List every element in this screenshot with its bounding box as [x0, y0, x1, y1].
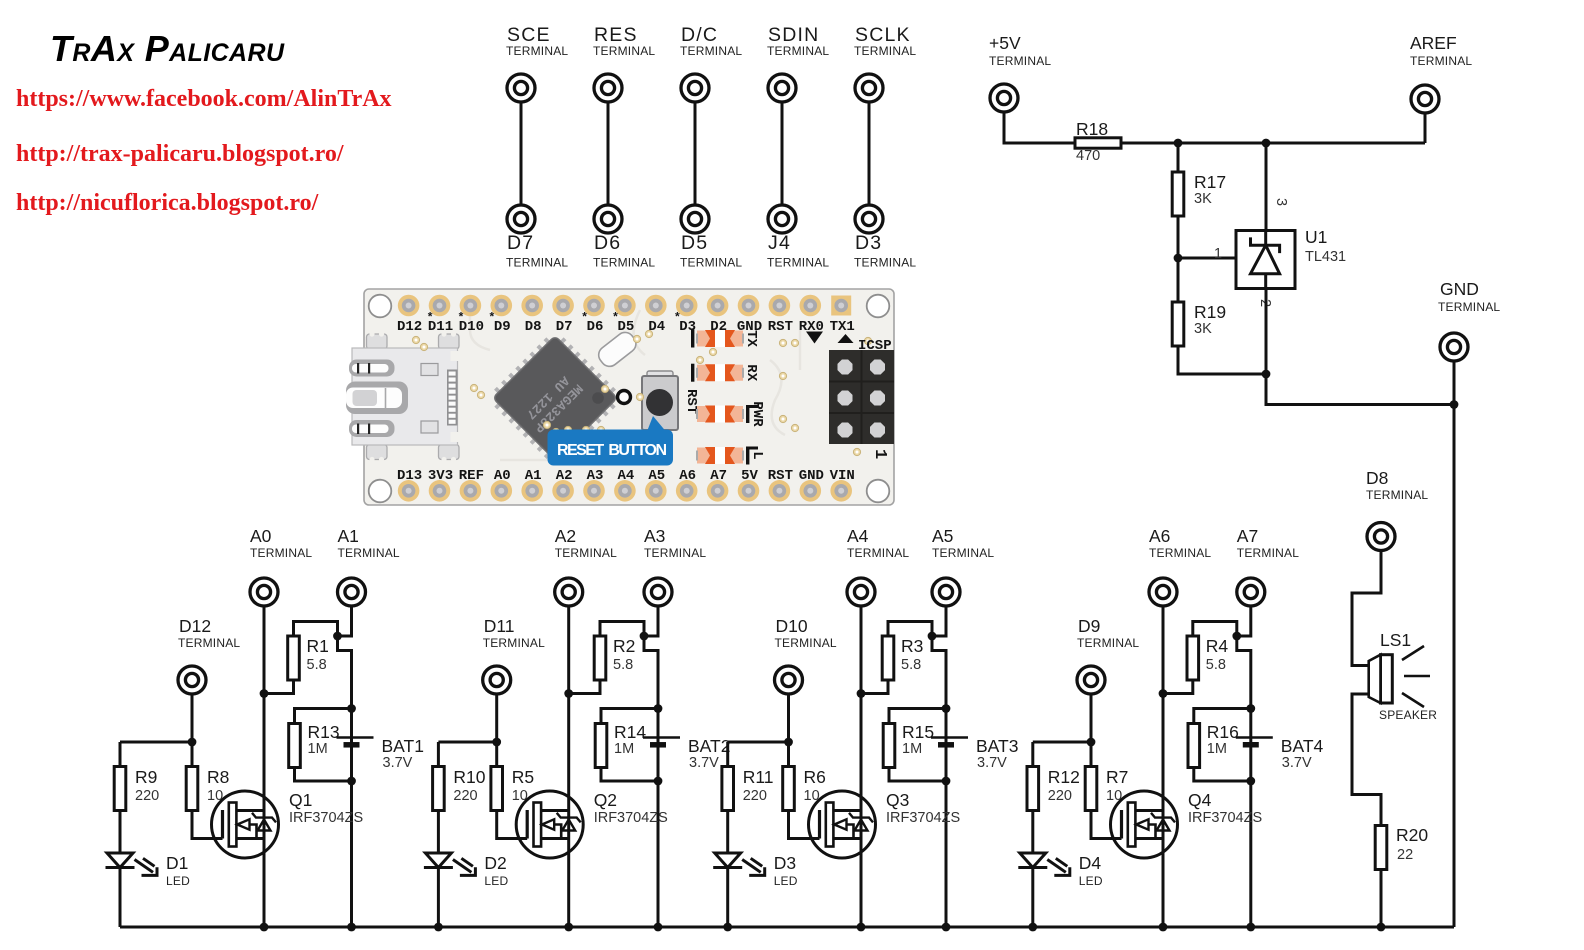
transistor Q4 IRF3704ZS: [1111, 791, 1178, 858]
svg-text:TERMINAL: TERMINAL: [178, 636, 240, 650]
wire A3 to node: [644, 606, 658, 636]
svg-text:RST: RST: [768, 468, 793, 484]
wire R12 top lead: [1031, 742, 1034, 767]
svg-text:*: *: [427, 311, 434, 325]
svg-text:A3: A3: [644, 526, 665, 546]
terminal A6: [1149, 578, 1177, 606]
terminal SCLK: [855, 74, 883, 102]
svg-text:LED: LED: [774, 874, 798, 888]
svg-text:LED: LED: [166, 874, 190, 888]
svg-text:D11: D11: [484, 616, 515, 636]
svg-text:TERMINAL: TERMINAL: [1077, 636, 1139, 650]
svg-text:R10: R10: [453, 767, 485, 787]
wire +5V to R18: [1004, 112, 1075, 143]
svg-text:D3: D3: [774, 853, 796, 873]
terminal A7: [1237, 578, 1265, 606]
svg-text:R16: R16: [1207, 722, 1239, 742]
board mounting hole: [369, 295, 392, 318]
svg-text:TERMINAL: TERMINAL: [593, 256, 655, 270]
svg-text:D3: D3: [855, 232, 882, 254]
wire N2 to U1 pin3: [1265, 143, 1268, 231]
svg-text:TERMINAL: TERMINAL: [483, 636, 545, 650]
svg-text:R2: R2: [613, 636, 635, 656]
svg-text:1: 1: [870, 449, 889, 459]
wire GND terminal down to bus: [1453, 361, 1456, 927]
svg-text:D9: D9: [494, 319, 511, 335]
wire R14 leads: [601, 709, 658, 782]
RX0 arrow marker: [806, 332, 823, 344]
wire U1 pin2 to GND net: [1266, 289, 1454, 405]
svg-text:22: 22: [1397, 847, 1413, 863]
wire A7 to node: [1237, 606, 1251, 636]
LED D4: [1018, 853, 1071, 877]
wire node to R10: [438, 741, 496, 744]
terminal A1: [338, 578, 366, 606]
svg-text:R11: R11: [743, 767, 774, 787]
svg-text:https://www.facebook.com/AlinT: https://www.facebook.com/AlinTrAx: [16, 86, 392, 112]
wire R5 top lead: [495, 742, 498, 767]
svg-text:R15: R15: [902, 722, 934, 742]
svg-text:D10: D10: [776, 616, 808, 636]
svg-text:ICSP: ICSP: [858, 338, 892, 354]
svg-text:3K: 3K: [1194, 321, 1212, 337]
svg-text:A5: A5: [932, 526, 953, 546]
svg-text:SDIN: SDIN: [768, 24, 819, 46]
svg-text:http://nicuflorica.blogspot.ro: http://nicuflorica.blogspot.ro/: [16, 190, 319, 216]
svg-text:TERMINAL: TERMINAL: [593, 44, 655, 58]
terminal A2: [555, 578, 583, 606]
terminal A0: [250, 578, 278, 606]
svg-text:AREF: AREF: [1410, 33, 1457, 53]
resistor R17: [1172, 172, 1184, 216]
wire D8 to speaker: [1352, 551, 1381, 666]
wire A4 column: [860, 606, 863, 927]
LED TX: [691, 330, 743, 348]
svg-text:TERMINAL: TERMINAL: [767, 44, 829, 58]
resistor R9: [114, 767, 126, 811]
terminal D/C: [681, 74, 709, 102]
svg-text:D7: D7: [556, 319, 573, 335]
wire node to R9: [120, 741, 192, 744]
terminal D9: [1077, 666, 1105, 694]
reset button callout: [548, 416, 674, 466]
svg-text:D1: D1: [166, 853, 188, 873]
svg-text:1M: 1M: [308, 741, 328, 757]
svg-text:A2: A2: [555, 526, 576, 546]
svg-text:470: 470: [1076, 148, 1100, 164]
resistor R15: [883, 724, 895, 768]
svg-text:L: L: [749, 451, 765, 459]
svg-text:A7: A7: [1237, 526, 1258, 546]
terminal A4: [847, 578, 875, 606]
svg-text:LED: LED: [1079, 874, 1103, 888]
wire R3 bottom lead: [861, 681, 888, 694]
svg-text:TERMINAL: TERMINAL: [932, 546, 994, 560]
svg-text:3.7V: 3.7V: [383, 755, 413, 771]
battery BAT4: [1236, 738, 1273, 745]
svg-text:REF: REF: [459, 468, 484, 484]
svg-text:TERMINAL: TERMINAL: [1149, 546, 1211, 560]
terminal J4: [768, 205, 796, 233]
wire R5 to gate: [497, 811, 528, 839]
svg-text:IRF3704ZS: IRF3704ZS: [594, 810, 668, 826]
terminal A3: [644, 578, 672, 606]
svg-text:3.7V: 3.7V: [689, 755, 719, 771]
svg-text:A6: A6: [679, 468, 696, 484]
terminal D10: [775, 666, 803, 694]
crystal oscillator: [595, 329, 639, 370]
wire R3 top lead: [888, 622, 932, 637]
svg-text:IRF3704ZS: IRF3704ZS: [1188, 810, 1262, 826]
terminal AREF: [1411, 85, 1439, 113]
wire R8 top lead: [191, 742, 194, 767]
wire R11 to LED: [726, 811, 729, 854]
resistor R3: [882, 636, 894, 680]
svg-text:TERMINAL: TERMINAL: [1438, 300, 1500, 314]
svg-text:A0: A0: [250, 526, 272, 546]
USB connector: [346, 331, 459, 462]
wire A3 column down: [644, 636, 658, 927]
svg-text:RX: RX: [743, 364, 759, 381]
svg-text:R13: R13: [308, 722, 340, 742]
wire R2 bottom lead: [569, 681, 600, 694]
svg-text:BAT2: BAT2: [688, 736, 730, 756]
wire R20 to bus: [1380, 870, 1383, 928]
wire A0 column: [263, 606, 266, 927]
wire R8 to gate: [192, 811, 223, 839]
reset button: [642, 371, 678, 430]
wire R17 to R19: [1177, 216, 1180, 302]
svg-text:R8: R8: [207, 767, 229, 787]
wire R10 top lead: [437, 742, 440, 767]
wire RES-D6: [607, 102, 610, 205]
svg-text:A1: A1: [338, 526, 359, 546]
ICSP header: [829, 350, 894, 444]
wire D10 down: [787, 694, 790, 742]
LED D1: [106, 853, 159, 877]
svg-text:*: *: [674, 311, 681, 325]
terminal SDIN: [768, 74, 796, 102]
board mounting hole: [867, 480, 890, 503]
svg-text:+5V: +5V: [989, 33, 1021, 53]
svg-text:GND: GND: [799, 468, 824, 484]
resistor R10: [433, 767, 445, 811]
terminal D6: [594, 205, 622, 233]
wire A5 to node: [932, 606, 946, 636]
svg-text:R3: R3: [901, 636, 923, 656]
svg-text:R14: R14: [614, 722, 646, 742]
svg-text:IRF3704ZS: IRF3704ZS: [289, 810, 363, 826]
wire R7 top lead: [1090, 742, 1093, 767]
Arduino Nano board: [364, 289, 894, 505]
svg-text:1: 1: [1214, 246, 1222, 262]
terminal D5: [681, 205, 709, 233]
wire A2 column: [567, 606, 570, 927]
svg-text:TL431: TL431: [1305, 249, 1346, 265]
svg-text:R4: R4: [1206, 636, 1229, 656]
resistor R20: [1375, 826, 1387, 870]
terminal D7: [507, 205, 535, 233]
terminal GND: [1440, 333, 1468, 361]
transistor Q1 IRF3704ZS: [212, 791, 279, 858]
svg-text:Q1: Q1: [289, 790, 312, 810]
terminal SCE: [507, 74, 535, 102]
svg-text:R7: R7: [1106, 767, 1128, 787]
node N2 junction: [1262, 139, 1271, 148]
svg-text:TERMINAL: TERMINAL: [847, 546, 909, 560]
svg-text:R20: R20: [1396, 825, 1428, 845]
wire A1 to node: [338, 606, 352, 636]
svg-text:*: *: [581, 311, 588, 325]
svg-text:R9: R9: [135, 767, 157, 787]
svg-text:R6: R6: [804, 767, 826, 787]
svg-text:TERMINAL: TERMINAL: [1366, 488, 1428, 502]
terminal D3: [855, 205, 883, 233]
svg-text:BAT1: BAT1: [382, 736, 424, 756]
svg-text:1M: 1M: [614, 741, 634, 757]
LED D2: [424, 853, 477, 877]
svg-text:TX1: TX1: [830, 319, 855, 335]
svg-text:D7: D7: [507, 232, 534, 254]
op-amp U1 TL431: [1236, 231, 1295, 289]
svg-text:BAT4: BAT4: [1281, 736, 1324, 756]
svg-text:D9: D9: [1078, 616, 1100, 636]
svg-text:GND: GND: [1440, 279, 1479, 299]
svg-text:J4: J4: [768, 232, 791, 254]
wire D2 to bus: [437, 868, 440, 928]
svg-text:D6: D6: [587, 319, 604, 335]
svg-text:D6: D6: [594, 232, 621, 254]
terminal RES: [594, 74, 622, 102]
svg-text:SPEAKER: SPEAKER: [1379, 708, 1437, 722]
svg-text:TERMINAL: TERMINAL: [854, 44, 916, 58]
svg-text:A2: A2: [556, 468, 573, 484]
svg-text:http://trax-palicaru.blogspot.: http://trax-palicaru.blogspot.ro/: [16, 141, 344, 167]
svg-text:RST: RST: [768, 319, 793, 335]
LED PWR: [697, 405, 758, 423]
svg-text:TERMINAL: TERMINAL: [989, 54, 1051, 68]
wire R6 to gate: [789, 811, 820, 839]
svg-text:BAT3: BAT3: [976, 736, 1018, 756]
node GND junction: [1450, 400, 1459, 409]
svg-text:LED: LED: [484, 874, 508, 888]
svg-text:D4: D4: [1079, 853, 1102, 873]
wire node to R12: [1033, 741, 1091, 744]
test point: [618, 391, 631, 404]
svg-text:1M: 1M: [1207, 741, 1227, 757]
svg-text:A3: A3: [587, 468, 604, 484]
wire D12 down: [191, 694, 194, 742]
svg-text:3V3: 3V3: [428, 468, 453, 484]
speaker LS1: [1369, 646, 1430, 707]
transistor Q3 IRF3704ZS: [809, 791, 876, 858]
wire R9 top lead: [119, 742, 122, 767]
wire R4 top lead: [1193, 622, 1237, 637]
resistor R1: [288, 636, 300, 680]
resistor R11: [722, 767, 734, 811]
wire R1 bottom lead: [264, 681, 294, 694]
resistor R7: [1085, 767, 1097, 811]
resistor R5: [491, 767, 503, 811]
svg-text:RESET BUTTON: RESET BUTTON: [557, 442, 667, 459]
wire ground bus: [120, 926, 1454, 929]
resistor R13: [289, 724, 301, 768]
battery BAT3: [931, 738, 968, 745]
wire R18 to AREF: [1121, 113, 1425, 143]
svg-text:RES: RES: [594, 24, 638, 46]
board bottom pin labels: [397, 468, 855, 484]
svg-text:*: *: [488, 311, 495, 325]
svg-text:D13: D13: [397, 468, 422, 484]
svg-text:TERMINAL: TERMINAL: [338, 546, 400, 560]
battery BAT1: [337, 738, 374, 745]
svg-text:D/C: D/C: [681, 24, 718, 46]
svg-text:SCLK: SCLK: [855, 24, 911, 46]
wire R9 to LED: [119, 811, 122, 854]
svg-text:3.7V: 3.7V: [977, 755, 1007, 771]
wire R1 top lead: [294, 622, 338, 637]
wire SCE-D7: [520, 102, 523, 205]
resistor R16: [1188, 724, 1200, 768]
LED L: [697, 447, 758, 465]
LED D3: [713, 853, 766, 877]
wire A1 column down: [338, 636, 352, 927]
wire D9 down: [1090, 694, 1093, 742]
resistor R12: [1027, 767, 1039, 811]
svg-text:TERMINAL: TERMINAL: [506, 44, 568, 58]
svg-text:Q4: Q4: [1188, 790, 1212, 810]
resistor R14: [595, 724, 607, 768]
wire pin1 of U1: [1178, 257, 1256, 260]
svg-text:3: 3: [1273, 198, 1289, 206]
svg-text:220: 220: [743, 788, 767, 804]
svg-text:TrAx Palicaru: TrAx Palicaru: [50, 28, 285, 69]
resistor R4: [1187, 636, 1199, 680]
wire SDIN-J4: [781, 102, 784, 205]
svg-text:*: *: [612, 311, 619, 325]
svg-text:TERMINAL: TERMINAL: [506, 256, 568, 270]
wire A5 column down: [932, 636, 946, 927]
board mounting hole: [867, 295, 890, 318]
terminal D11: [483, 666, 511, 694]
svg-text:D8: D8: [1366, 468, 1388, 488]
resistor R2: [594, 636, 606, 680]
svg-text:TERMINAL: TERMINAL: [250, 546, 312, 560]
wire R15 leads: [889, 709, 946, 782]
terminal D8: [1367, 523, 1395, 551]
svg-text:A4: A4: [617, 468, 634, 484]
svg-text:SCE: SCE: [507, 24, 551, 46]
resistor R19: [1172, 302, 1184, 346]
wire D1 to bus: [119, 868, 122, 928]
svg-text:220: 220: [1048, 788, 1072, 804]
wire N1 to R17: [1177, 143, 1180, 172]
node N3 junction: [1262, 370, 1271, 379]
ATmega328P chip: [486, 329, 625, 468]
svg-text:5.8: 5.8: [901, 657, 921, 673]
node REF junction: [1174, 254, 1183, 263]
battery BAT2: [643, 738, 680, 745]
svg-text:D5: D5: [681, 232, 708, 254]
wire D3 to bus: [726, 868, 729, 928]
wire R4 bottom lead: [1163, 681, 1193, 694]
svg-text:TX: TX: [743, 330, 759, 347]
svg-text:D12: D12: [179, 616, 211, 636]
svg-text:TERMINAL: TERMINAL: [1237, 546, 1299, 560]
svg-text:1M: 1M: [902, 741, 922, 757]
svg-text:TERMINAL: TERMINAL: [1410, 54, 1472, 68]
board pin pads bottom row: [398, 480, 852, 502]
wire node to R11: [728, 741, 789, 744]
svg-text:5V: 5V: [741, 468, 758, 484]
svg-text:D2: D2: [484, 853, 506, 873]
svg-text:TERMINAL: TERMINAL: [680, 256, 742, 270]
wire R6 top lead: [787, 742, 790, 767]
wire A6 column: [1162, 606, 1165, 927]
svg-text:3.7V: 3.7V: [1282, 755, 1312, 771]
wire R13 leads: [295, 709, 352, 782]
svg-text:TERMINAL: TERMINAL: [767, 256, 829, 270]
svg-text:R18: R18: [1076, 119, 1108, 139]
wire R12 to LED: [1031, 811, 1034, 854]
svg-text:A6: A6: [1149, 526, 1170, 546]
svg-text:D8: D8: [525, 319, 542, 335]
resistor R8: [186, 767, 198, 811]
svg-text:3K: 3K: [1194, 191, 1212, 207]
svg-text:A5: A5: [648, 468, 665, 484]
wire R2 top lead: [600, 622, 644, 637]
wire A7 column down: [1237, 636, 1251, 927]
svg-text:R17: R17: [1194, 172, 1226, 192]
svg-text:A7: A7: [710, 468, 727, 484]
svg-text:VIN: VIN: [830, 468, 855, 484]
svg-text:R12: R12: [1048, 767, 1080, 787]
svg-text:TERMINAL: TERMINAL: [555, 546, 617, 560]
svg-text:D12: D12: [397, 319, 422, 335]
transistor Q2 IRF3704ZS: [516, 791, 583, 858]
wire R10 to LED: [437, 811, 440, 854]
svg-text:R5: R5: [512, 767, 534, 787]
node N1 junction: [1174, 139, 1183, 148]
svg-text:220: 220: [453, 788, 477, 804]
board top pin labels: [397, 311, 855, 335]
board mounting hole: [369, 480, 392, 503]
svg-text:Q2: Q2: [594, 790, 617, 810]
svg-text:5.8: 5.8: [307, 657, 327, 673]
svg-text:LS1: LS1: [1380, 630, 1411, 650]
terminal D12: [178, 666, 206, 694]
wire R11 top lead: [726, 742, 729, 767]
board pin pads top row: [398, 295, 851, 317]
wire SCLK-D3: [868, 102, 871, 205]
svg-text:TERMINAL: TERMINAL: [680, 44, 742, 58]
resistor R18: [1075, 138, 1121, 148]
TX1 arrow marker: [838, 334, 854, 343]
svg-text:5.8: 5.8: [613, 657, 633, 673]
svg-text:*: *: [457, 311, 464, 325]
wire R7 to gate: [1091, 811, 1122, 839]
svg-text:A0: A0: [494, 468, 511, 484]
terminal +5V: [990, 84, 1018, 112]
svg-text:U1: U1: [1305, 227, 1327, 247]
svg-text:A1: A1: [525, 468, 542, 484]
svg-text:TERMINAL: TERMINAL: [644, 546, 706, 560]
wire R19 to U1 pin2: [1178, 346, 1266, 374]
wire D4 to bus: [1031, 868, 1034, 928]
LED RX: [691, 364, 743, 382]
svg-text:TERMINAL: TERMINAL: [775, 636, 837, 650]
wire D11 down: [495, 694, 498, 742]
